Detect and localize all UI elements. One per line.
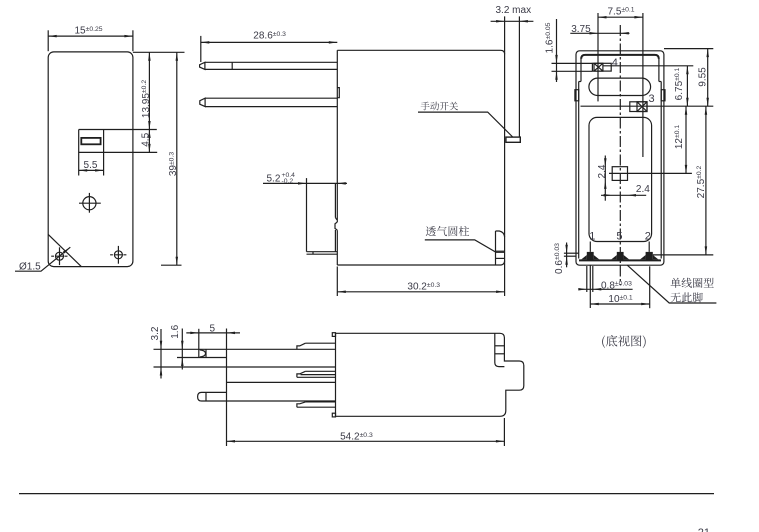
svg-text:13.95±0.2: 13.95±0.2 (141, 80, 152, 118)
svg-text:0.6±0.03: 0.6±0.03 (554, 243, 565, 274)
svg-text:-0.2: -0.2 (282, 178, 294, 185)
svg-text:4.5: 4.5 (140, 132, 151, 146)
svg-text:6.75±0.1: 6.75±0.1 (674, 67, 685, 100)
svg-text:2.4: 2.4 (636, 184, 650, 195)
svg-text:5.5: 5.5 (84, 160, 98, 171)
svg-text:3: 3 (649, 93, 655, 105)
svg-text:27.5±0.2: 27.5±0.2 (696, 165, 707, 198)
svg-text:1.6: 1.6 (170, 324, 181, 338)
svg-text:28.6±0.3: 28.6±0.3 (253, 31, 286, 42)
svg-text:5: 5 (210, 323, 216, 334)
svg-text:5.2: 5.2 (267, 173, 281, 184)
svg-text:1.6±0.05: 1.6±0.05 (545, 22, 556, 53)
svg-text:3.75: 3.75 (571, 24, 591, 35)
svg-text:2.4: 2.4 (597, 164, 608, 178)
svg-text:30.2±0.3: 30.2±0.3 (407, 282, 440, 293)
svg-text:21: 21 (698, 527, 710, 532)
svg-text:7.5±0.1: 7.5±0.1 (608, 6, 635, 17)
svg-text:9.55: 9.55 (698, 67, 709, 87)
svg-text:15±0.25: 15±0.25 (75, 26, 103, 37)
svg-text:39±0.3: 39±0.3 (168, 152, 179, 177)
svg-text:3.2 max: 3.2 max (496, 5, 532, 16)
svg-text:4: 4 (612, 57, 618, 69)
svg-text:10±0.1: 10±0.1 (608, 294, 633, 305)
svg-text:3.2: 3.2 (150, 326, 161, 340)
svg-text:2: 2 (645, 231, 651, 243)
svg-text:1: 1 (589, 231, 595, 243)
svg-text:12±0.1: 12±0.1 (674, 125, 685, 150)
svg-text:Ø1.5: Ø1.5 (19, 262, 41, 273)
svg-text:5: 5 (616, 231, 622, 243)
